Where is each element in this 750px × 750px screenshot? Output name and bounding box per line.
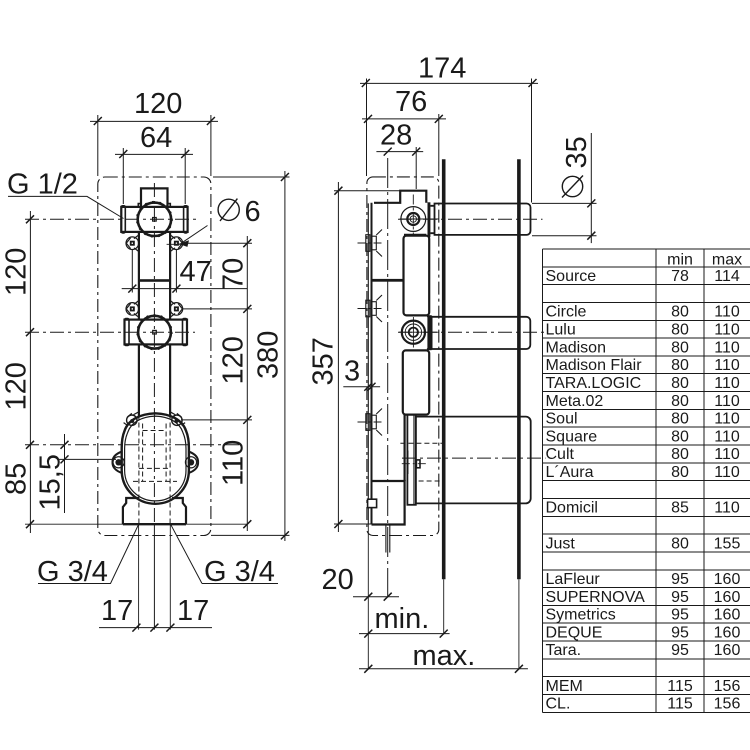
svg-text:174: 174: [418, 53, 466, 85]
thermostat housing inner shell: [125, 416, 186, 501]
svg-text:110: 110: [714, 339, 740, 356]
svg-text:95: 95: [671, 589, 689, 606]
riser pipe V2-oval: [139, 344, 170, 417]
fastener clip 2: [366, 295, 382, 322]
product table: [543, 249, 750, 712]
screw tab B1 (right, under V1): [170, 235, 183, 252]
svg-text:110: 110: [714, 446, 740, 463]
valve V1 side crosshair: [400, 218, 439, 220]
leader G 1/2: [8, 196, 124, 218]
svg-text:160: 160: [714, 589, 741, 606]
cartridge C3 body: [416, 417, 531, 504]
svg-text:DEQUE: DEQUE: [546, 624, 603, 641]
cartridge C1 body: [435, 204, 531, 235]
svg-text:78: 78: [671, 268, 689, 285]
bottom manifold block: [372, 481, 405, 525]
svg-text:115: 115: [667, 696, 693, 713]
cartridge C1 mounting band (striped): [428, 202, 431, 237]
finished wall line max: [517, 159, 521, 579]
svg-text:80: 80: [671, 464, 689, 481]
dim 174 line: [360, 82, 538, 84]
dim 47 line: [122, 288, 248, 290]
svg-text:155: 155: [714, 535, 741, 552]
svg-text:Square: Square: [546, 428, 598, 445]
dim 47 extension lines: [132, 250, 176, 293]
svg-text:120: 120: [1, 248, 33, 296]
svg-text:SUPERNOVA: SUPERNOVA: [546, 589, 646, 606]
svg-text:80: 80: [671, 393, 689, 410]
valve V2 left end cap: [125, 319, 130, 346]
valve V2 center square: [153, 330, 157, 334]
svg-text:Meta.02: Meta.02: [546, 393, 604, 410]
svg-text:110: 110: [714, 464, 740, 481]
fastener clip 3: [366, 409, 382, 436]
svg-text:max.: max.: [413, 640, 476, 672]
oval top screw right: [172, 415, 182, 425]
svg-text:80: 80: [671, 357, 689, 374]
svg-text:min: min: [667, 251, 693, 268]
svg-text:156: 156: [714, 678, 741, 695]
svg-text:min.: min.: [375, 603, 430, 635]
svg-text:3: 3: [344, 355, 360, 387]
svg-text:6: 6: [245, 196, 261, 228]
oval hidden inner box: [143, 424, 167, 482]
valve V1 side bottom edge: [404, 234, 426, 236]
dia35 symbol: [562, 176, 582, 196]
svg-text:CL.: CL.: [546, 696, 571, 713]
right chain dimension line: [246, 236, 248, 531]
valve V1 center square: [153, 218, 157, 222]
svg-text:35: 35: [561, 136, 593, 168]
valve V2 side crosshair: [399, 331, 439, 333]
svg-text:G 3/4: G 3/4: [204, 556, 275, 588]
wall plate back face: [371, 203, 373, 525]
oval top screw left: [127, 415, 137, 425]
svg-text:110: 110: [714, 393, 740, 410]
dim 357 line: [337, 182, 339, 532]
svg-text:115: 115: [667, 678, 693, 695]
svg-text:Madison Flair: Madison Flair: [546, 357, 643, 374]
oval horizontal centerline: [25, 444, 240, 446]
svg-text:120: 120: [1, 362, 33, 410]
svg-text:110: 110: [714, 428, 740, 445]
dim 76 line: [362, 118, 446, 120]
svg-text:120: 120: [218, 336, 250, 384]
oval hidden horizontals: [133, 468, 177, 481]
valve V1 top port: [141, 188, 168, 207]
dim 380 line: [284, 171, 286, 541]
dim 15,5 extension line: [58, 458, 116, 460]
mid body block: [404, 236, 430, 316]
left chain dimension line: [29, 211, 31, 533]
svg-text:95: 95: [671, 571, 689, 588]
svg-text:80: 80: [671, 428, 689, 445]
svg-text:160: 160: [714, 607, 741, 624]
valve V2 horizontal centerline: [25, 331, 195, 333]
dim 15,5 line: [64, 434, 66, 513]
cartridge C1 neck: [430, 206, 434, 233]
dia6 symbol: [218, 199, 239, 220]
valve V2 right end cap: [183, 319, 188, 346]
thermostat housing outer shell: [122, 413, 189, 504]
wall plate front face extension (min/max): [367, 525, 369, 670]
svg-text:80: 80: [671, 322, 689, 339]
body column beside C3: [404, 415, 406, 481]
valve V1 circle: [138, 203, 171, 236]
wall plate front face: [367, 203, 369, 524]
cartridge C3 centerline (into table): [402, 457, 546, 459]
screw tab B2 (right, above V2): [170, 301, 183, 318]
valve V1 horizontal body: [121, 207, 187, 232]
right chain extension lines: [181, 243, 252, 420]
cartridge C1 centerline: [398, 218, 543, 220]
dim 120 extension lines: [98, 115, 211, 176]
svg-text:17: 17: [177, 595, 209, 627]
dim dia35 line: [590, 133, 592, 243]
svg-text:357: 357: [308, 337, 340, 385]
svg-text:110: 110: [714, 500, 740, 517]
svg-text:110: 110: [714, 357, 740, 374]
svg-text:max: max: [712, 251, 742, 268]
valve V1 side circles: [401, 207, 426, 232]
svg-text:80: 80: [671, 375, 689, 392]
pedestal below oval: [123, 498, 186, 524]
svg-text:110: 110: [218, 440, 250, 486]
valve V2 mounting band (striped): [427, 315, 431, 350]
svg-text:TARA.LOGIC: TARA.LOGIC: [546, 375, 642, 392]
svg-text:Circle: Circle: [546, 304, 587, 321]
dim 174 extension lines: [367, 79, 532, 203]
cartridge C3 flange: [407, 415, 415, 505]
dim 380 extension lines: [211, 177, 290, 535]
dim 28 extension line: [415, 147, 417, 189]
finished wall line min: [442, 159, 446, 579]
cartridge C2 body: [432, 317, 531, 349]
dim 20 line: [353, 596, 399, 598]
dim max line: [359, 668, 528, 670]
svg-text:70: 70: [218, 258, 250, 290]
hidden lines in C3: [400, 443, 442, 481]
dim 17/17 line: [99, 627, 212, 629]
svg-text:95: 95: [671, 607, 689, 624]
svg-text:80: 80: [671, 411, 689, 428]
svg-text:160: 160: [714, 624, 741, 641]
svg-text:64: 64: [140, 122, 172, 154]
dim 64 extension lines: [123, 148, 185, 204]
dim 64 line: [115, 153, 193, 155]
pipe axis line (side view): [387, 158, 389, 597]
bold joint band on riser: [139, 279, 170, 282]
svg-text:110: 110: [714, 304, 740, 321]
leader dia6: [182, 226, 208, 244]
svg-text:Just: Just: [546, 535, 576, 552]
mounting plate outline (front view, chain line): [98, 177, 211, 536]
svg-text:28: 28: [380, 120, 412, 152]
valve V1 port ears: [138, 204, 170, 207]
dim 3 line: [343, 386, 380, 388]
svg-text:110: 110: [714, 375, 740, 392]
svg-text:120: 120: [134, 88, 182, 120]
svg-text:80: 80: [671, 304, 689, 321]
svg-text:160: 160: [714, 571, 741, 588]
side body top block: [374, 191, 426, 203]
valve V2 band washers: [427, 316, 432, 349]
set screw detail: [416, 460, 420, 468]
dim dia35 extension lines: [532, 203, 597, 235]
bottom block notch: [368, 499, 377, 507]
G3/4 extension lines below pedestal: [139, 525, 171, 630]
svg-text:G 1/2: G 1/2: [7, 169, 78, 201]
svg-text:15,5: 15,5: [35, 454, 67, 510]
svg-text:110: 110: [714, 322, 740, 339]
svg-text:Madison: Madison: [546, 339, 606, 356]
screw tab A2 (left, above V2): [126, 301, 139, 318]
svg-text:110: 110: [714, 411, 740, 428]
svg-text:156: 156: [714, 696, 741, 713]
dim 120 (top width) line: [90, 120, 218, 122]
valve V1 right end cap: [184, 206, 188, 233]
valve V2 circle: [138, 316, 171, 349]
svg-text:Source: Source: [546, 268, 597, 285]
oval side tab left: [112, 452, 122, 474]
valve V2 horizontal body: [125, 320, 188, 345]
vertical centerline (front view): [153, 183, 155, 525]
G3/4 pipe stub below (side): [386, 525, 390, 553]
svg-text:Domicil: Domicil: [546, 500, 598, 517]
svg-text:20: 20: [322, 564, 354, 596]
svg-text:G 3/4: G 3/4: [37, 556, 108, 588]
lower body block: [403, 350, 429, 414]
fastener clip 1: [366, 230, 382, 257]
svg-text:76: 76: [395, 86, 427, 118]
baseline extension line across (to both chains): [25, 523, 247, 525]
svg-text:L´Aura: L´Aura: [546, 464, 594, 481]
leader G 3/4 left: [38, 525, 138, 584]
svg-text:17: 17: [101, 595, 133, 627]
svg-text:95: 95: [671, 642, 689, 659]
screw tab A1 (left, under V1): [126, 235, 139, 252]
valve V2 side circles: [402, 321, 425, 344]
svg-text:Lulu: Lulu: [546, 322, 576, 339]
svg-text:380: 380: [253, 331, 285, 379]
dim 357 extension lines: [334, 191, 400, 524]
bold band plate-to-body: [372, 279, 404, 282]
valve V1 left end cap: [121, 206, 125, 233]
svg-text:LaFleur: LaFleur: [546, 571, 601, 588]
dim 28 line: [376, 151, 423, 153]
svg-text:Tara.: Tara.: [546, 642, 582, 659]
svg-text:95: 95: [671, 624, 689, 641]
svg-text:80: 80: [671, 535, 689, 552]
svg-text:Symetrics: Symetrics: [546, 607, 616, 624]
valve V1 horizontal centerline: [25, 218, 200, 220]
svg-text:85: 85: [1, 463, 33, 495]
side plate outline (chain line): [367, 177, 439, 536]
svg-text:160: 160: [714, 642, 741, 659]
svg-text:114: 114: [714, 268, 740, 285]
oval hidden pipe lines: [139, 415, 170, 525]
svg-text:MEM: MEM: [546, 678, 583, 695]
dim min line: [359, 633, 450, 635]
svg-text:Soul: Soul: [546, 411, 578, 428]
svg-text:Cult: Cult: [546, 446, 575, 463]
oval side tab right: [189, 452, 199, 474]
svg-text:47: 47: [180, 256, 212, 288]
dim 76 extension line: [438, 114, 440, 176]
cartridge C2 centerline (into table): [398, 331, 546, 333]
svg-text:80: 80: [671, 446, 689, 463]
svg-text:85: 85: [671, 500, 689, 517]
svg-text:80: 80: [671, 339, 689, 356]
riser pipe V1-V2: [139, 232, 170, 320]
leader G 3/4 right: [171, 525, 278, 584]
